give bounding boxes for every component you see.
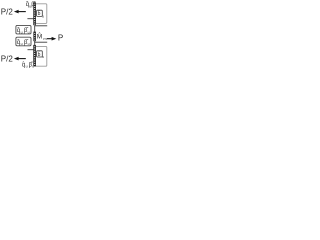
svg-text:M̂: M̂ [37,32,43,40]
svg-text:u: u [28,30,30,34]
svg-text:u: u [42,55,44,59]
svg-text:P/2: P/2 [1,55,14,64]
svg-text:u: u [21,30,23,34]
svg-text:u: u [21,42,23,46]
svg-text:u: u [32,65,34,69]
svg-text:u: u [28,42,30,46]
svg-text:P: P [58,33,63,42]
svg-text:P/2: P/2 [1,7,14,16]
svg-text:u: u [26,65,28,69]
svg-text:u: u [42,14,44,18]
svg-text:b̂: b̂ [38,10,41,17]
svg-text:b̂: b̂ [38,51,41,58]
